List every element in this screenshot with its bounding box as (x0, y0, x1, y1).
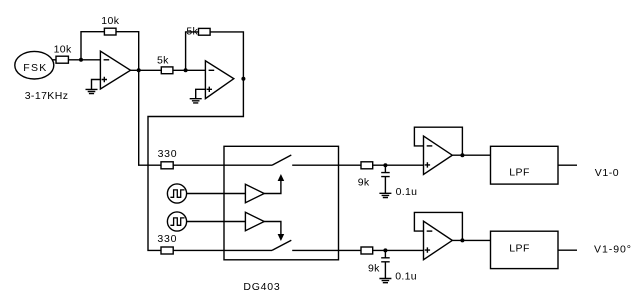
wire P2 to buffer A2 (187, 221, 246, 223)
svg-text:5k: 5k (186, 25, 198, 37)
wire buffer A1 to up arrow (264, 180, 281, 193)
wire node A to op-amp U1 minus (81, 59, 100, 61)
wire switch S1 to 9k top (292, 164, 361, 166)
ground U2 (190, 99, 202, 103)
svg-text:V1-90°: V1-90° (594, 243, 632, 255)
wire U1 plus to ground (92, 80, 101, 90)
wire 330 top to switch S1 (173, 164, 272, 166)
resistor 5k feedback (199, 28, 211, 35)
wire U1 output to node C (131, 69, 206, 71)
resistor 10k input (56, 56, 68, 63)
wire node E to op-amp U3 plus (373, 164, 424, 166)
op-amp U4 minus pin (427, 230, 433, 232)
LPF block 2 (491, 231, 559, 268)
pulse source P1 (167, 184, 186, 203)
buffer A1 (245, 184, 264, 202)
wire feedback U1 (81, 32, 139, 71)
wire 330 bottom to switch S2 (173, 249, 272, 251)
svg-text:5k: 5k (157, 54, 169, 66)
node A (79, 58, 83, 62)
svg-text:10k: 10k (54, 43, 72, 55)
op-amp U2 minus pin (209, 69, 215, 71)
wire feedback U4 (414, 212, 462, 240)
wire node B down to top channel (139, 70, 161, 165)
op-amp U4 plus pin (425, 247, 430, 252)
svg-text:330: 330 (158, 148, 178, 160)
op-amp U1 minus pin (104, 59, 110, 61)
wire U4 output to LPF2 (452, 239, 490, 241)
resistor 330 bottom (161, 247, 173, 254)
DG403 box (224, 146, 339, 259)
svg-text:9k: 9k (358, 176, 370, 188)
node H (460, 238, 464, 242)
op-amp U2 plus pin (207, 87, 212, 92)
node B (137, 68, 141, 72)
wire P1 to buffer A1 (187, 193, 246, 195)
op-amp U3 minus pin (427, 145, 433, 147)
op-amp U3 plus pin (425, 162, 430, 167)
pulse source P2 waveform (170, 218, 184, 225)
wire LPF2 output (558, 249, 577, 251)
node G (383, 248, 387, 252)
op-amp U2 (205, 61, 233, 99)
resistor 10k feedback (104, 28, 116, 35)
wire buffer A2 to down arrow (264, 222, 281, 235)
resistor 9k bottom (361, 247, 373, 254)
svg-text:9k: 9k (368, 262, 380, 274)
capacitor 0.1u bottom (381, 250, 390, 278)
wire FSK to node A (52, 59, 81, 61)
ground capacitor bottom (379, 279, 391, 283)
wire feedback U3 (414, 127, 462, 155)
ground capacitor top (379, 193, 391, 197)
wire LPF1 output (558, 164, 577, 166)
resistor 5k series (161, 67, 173, 74)
LPF block 1 (491, 146, 559, 184)
switch S1 arm (272, 155, 291, 165)
buffer A2 (245, 212, 264, 230)
svg-text:DG403: DG403 (243, 281, 280, 293)
source FSK (15, 51, 54, 79)
switch S2 arm (272, 240, 291, 250)
wire feedback U2 (186, 32, 244, 79)
wire U3 output to LPF1 (452, 154, 490, 156)
svg-text:LPF: LPF (509, 166, 530, 178)
node F (460, 153, 464, 157)
resistor 330 top (161, 162, 173, 169)
arrow down S2 control (278, 234, 285, 241)
svg-text:V1-0: V1-0 (595, 167, 619, 179)
wire switch S2 to 9k bottom (292, 249, 361, 251)
arrow up S1 control (278, 174, 285, 181)
pulse source P2 (167, 212, 186, 231)
svg-text:0.1u: 0.1u (396, 186, 418, 198)
node E (383, 163, 387, 167)
wire node G to op-amp U4 plus (373, 249, 424, 251)
node C (184, 68, 188, 72)
svg-text:LPF: LPF (509, 242, 530, 254)
wire U2 output down and left to bottom channel (148, 79, 243, 251)
node D (241, 77, 245, 81)
svg-text:0.1u: 0.1u (395, 271, 417, 283)
svg-text:10k: 10k (101, 15, 119, 27)
op-amp U1 (100, 51, 130, 89)
op-amp U1 plus pin (102, 77, 107, 82)
capacitor 0.1u top (381, 165, 390, 193)
svg-text:3-17KHz: 3-17KHz (25, 90, 69, 102)
op-amp U4 (424, 221, 453, 260)
resistor 9k top (361, 162, 373, 169)
ground U1 (86, 89, 98, 93)
wire U2 plus to ground (196, 89, 206, 98)
pulse source P1 waveform (170, 190, 184, 197)
op-amp U3 (424, 136, 453, 175)
svg-text:330: 330 (157, 233, 177, 245)
svg-text:FSK: FSK (23, 62, 47, 74)
